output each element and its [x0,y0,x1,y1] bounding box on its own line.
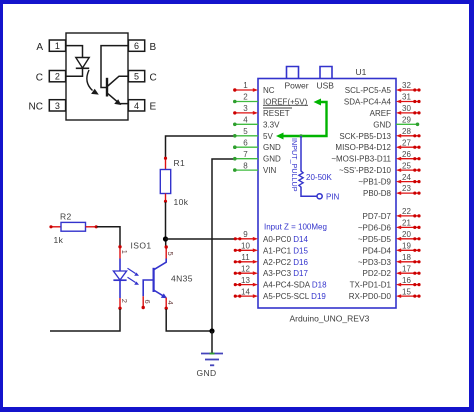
svg-text:A0-PC0 D14: A0-PC0 D14 [263,235,308,244]
label R2 [60,212,72,222]
ground node junction [209,328,214,333]
U1 pin name A1-PC1 D15 [263,246,308,255]
svg-text:1k: 1k [54,235,64,245]
svg-text:~PB1-D9: ~PB1-D9 [358,178,391,187]
svg-text:4: 4 [134,101,139,111]
svg-text:A: A [36,42,43,53]
U1 pin 20 stub [396,230,421,241]
U1 pin name ~PB1-D9 [358,178,391,187]
svg-text:2: 2 [120,299,129,303]
svg-text:E: E [150,102,157,113]
package pin 2 box [49,71,65,82]
svg-text:10k: 10k [174,197,189,207]
svg-text:10: 10 [241,242,250,251]
svg-text:R1: R1 [174,158,186,168]
U1 pin 5 stub [233,127,258,138]
U1 pin 26 stub [396,150,421,161]
package internal LED diode [76,58,89,69]
svg-text:ISO1: ISO1 [131,241,152,251]
svg-text:AREF: AREF [370,109,391,118]
package label B [150,42,157,53]
svg-text:8: 8 [243,161,248,170]
pullup resistor 20-50K [299,136,322,199]
ISO1 pin 1 [118,245,129,258]
svg-text:6: 6 [143,300,152,304]
svg-text:PD7-D7: PD7-D7 [363,212,392,221]
U1 pin name A4-PC4-SDA D18 [263,281,327,290]
optocoupler package body [66,33,128,120]
svg-text:26: 26 [402,150,411,159]
svg-text:20-50K: 20-50K [306,173,332,182]
U1 pin name ~SS&#39;-PB2-D10 [339,166,392,175]
svg-text:TX-PD1-D1: TX-PD1-D1 [350,281,392,290]
svg-text:3.3V: 3.3V [263,120,280,129]
wire node A to pin9 [166,238,237,240]
U1 pin name A0-PC0 D14 [263,235,308,244]
wire emitter to ground node [166,309,212,331]
label 1k [54,235,64,245]
U1 pin name GND [263,143,281,152]
U1 pin name ~MOSI-PB3-D11 [331,155,391,164]
svg-text:SDA-PC4-A4: SDA-PC4-A4 [344,98,392,107]
svg-text:20: 20 [402,230,411,239]
svg-text:A5-PC5-SCL D19: A5-PC5-SCL D19 [263,292,326,301]
svg-text:25: 25 [402,161,411,170]
label 20-50K [306,173,332,182]
U1 pin 4 stub [233,116,258,127]
U1 pin name 3.3V [263,120,280,129]
U1 pin 24 stub [396,173,421,184]
svg-text:Power: Power [285,81,309,91]
label Power [285,81,309,91]
U1 pin 8 stub [233,161,258,172]
svg-text:~PD6-D6: ~PD6-D6 [358,223,392,232]
svg-text:SCL-PC5-A5: SCL-PC5-A5 [345,86,392,95]
U1 pin 22 stub [396,207,421,218]
svg-text:MISO-PB4-D12: MISO-PB4-D12 [335,143,391,152]
ISO1 pin 5 [165,245,176,258]
U1 pin name SCK-PB5-D13 [339,132,391,141]
U1 pin 15 stub [396,287,421,298]
op-amp U1 chip body [258,79,396,309]
package label E [150,102,157,113]
svg-text:4: 4 [166,301,175,305]
svg-text:PD4-D4: PD4-D4 [363,246,392,255]
svg-text:1: 1 [243,81,248,90]
U1 pin name PB0-D8 [363,189,392,198]
svg-text:16: 16 [402,276,411,285]
U1 pin name SDA-PC4-A4 [344,98,392,107]
svg-text:32: 32 [402,81,411,90]
label 10k [174,197,189,207]
svg-text:5V: 5V [263,132,273,141]
svg-text:24: 24 [402,173,411,182]
U1 pin name NC [263,86,275,95]
ground [201,331,223,365]
U1 pin 17 stub [396,264,421,275]
package pin 6 box [128,40,144,51]
svg-text:1: 1 [120,250,129,254]
svg-text:NC: NC [29,102,43,113]
U1 pin name PD4-D4 [363,246,392,255]
U1 pin 6 stub [233,138,258,149]
U1 pin 3 stub [233,104,258,115]
svg-text:12: 12 [241,264,250,273]
svg-text:GND: GND [263,155,281,164]
U1 pin 14 stub [234,287,258,298]
svg-text:B: B [150,42,157,53]
U1 pin 16 stub [396,276,421,287]
U1 pin name ~PD5-D5 [358,235,392,244]
wire GND pin7 down [212,159,234,331]
svg-text:6: 6 [134,41,139,51]
svg-text:2: 2 [243,93,248,102]
svg-text:~PD3-D3: ~PD3-D3 [358,258,392,267]
U1 pin 7 stub [233,150,258,161]
package pin 4 box [128,100,144,111]
U1 pin name SCL-PC5-A5 [345,86,392,95]
U1 pin name A3-PC3 D17 [263,269,308,278]
package pin 5 box [128,71,144,82]
ISO1 pin 6 [142,296,153,309]
svg-text:A2-PC2 D16: A2-PC2 D16 [263,258,308,267]
U1 pin name A2-PC2 D16 [263,258,308,267]
svg-text:GND: GND [373,120,391,129]
U1 pin 18 stub [396,253,421,264]
svg-text:5: 5 [243,127,248,136]
U1 pin 10 stub [234,242,258,253]
svg-text:17: 17 [402,264,411,273]
node A junction [163,236,168,241]
svg-text:Arduino_UNO_REV3: Arduino_UNO_REV3 [290,314,370,324]
package light arrow [87,70,99,95]
svg-text:GND: GND [263,143,281,152]
label INPUT_PULLUP [290,138,299,192]
U1 pin 23 stub [396,184,421,195]
svg-text:5: 5 [166,252,175,256]
U1 pin name PD7-D7 [363,212,392,221]
U1 pin 25 stub [396,161,421,172]
svg-text:22: 22 [402,207,411,216]
svg-text:2: 2 [55,72,60,82]
U1 pin name A5-PC5-SCL D19 [263,292,326,301]
U1 pin name RESET [263,105,308,118]
svg-text:18: 18 [402,253,411,262]
U1 pin 27 stub [396,138,421,149]
svg-text:30: 30 [402,104,411,113]
U1 pin 19 stub [396,242,421,253]
svg-text:GND: GND [197,368,217,378]
U1 pin 21 stub [396,219,421,230]
label PIN [326,193,340,202]
wire R2 to ISO1 pin1 [97,227,120,246]
U1 pin name 5V [263,132,273,141]
label 4N35 [171,274,193,284]
svg-text:7: 7 [243,150,248,159]
svg-text:21: 21 [402,219,411,228]
svg-text:PIN: PIN [326,193,340,202]
svg-text:R2: R2 [60,212,72,222]
svg-text:A1-PC1 D15: A1-PC1 D15 [263,246,308,255]
svg-text:28: 28 [402,127,411,136]
svg-text:11: 11 [241,253,250,262]
svg-text:1: 1 [55,41,60,51]
wire LED cathode left [50,309,120,331]
package label NC [29,102,43,113]
svg-text:23: 23 [402,184,411,193]
U1 pin name PD2-D2 [363,269,392,278]
ISO1 pin 2 [118,298,129,310]
wire R1 to node A [165,202,167,239]
ISO1 pin 4 [165,298,176,310]
U1 pin 32 stub [396,81,421,92]
svg-text:5: 5 [134,72,139,82]
label Input Z = 100Meg [264,223,327,232]
U1 pin 2 stub [233,93,258,104]
ISO1 phototransistor [143,259,167,299]
U1 pin 9 stub [234,230,258,241]
svg-text:14: 14 [241,287,250,296]
wire 5V to R1 [166,136,234,158]
package transistor emitter [108,94,129,105]
svg-text:3: 3 [55,101,60,111]
U1 pin name VIN [263,166,277,175]
package pin 1 box [49,40,65,51]
svg-text:~PD5-D5: ~PD5-D5 [358,235,392,244]
label USB [317,81,335,91]
svg-text:~SS'-PB2-D10: ~SS'-PB2-D10 [339,166,392,175]
U1 pin name GND [373,120,391,129]
IOREF to 5V green arrow [276,99,327,140]
svg-text:9: 9 [243,230,248,239]
svg-text:31: 31 [402,93,411,102]
svg-text:NC: NC [263,86,275,95]
svg-text:A3-PC3 D17: A3-PC3 D17 [263,269,308,278]
label ISO1 [131,241,152,251]
label Arduino_UNO_REV3 [290,314,370,324]
package label C [150,72,157,83]
package label A [36,42,43,53]
package label C [36,72,43,83]
U1 pin 31 stub [396,93,421,104]
svg-text:A4-PC4-SDA D18: A4-PC4-SDA D18 [263,281,327,290]
U1 pin 28 stub [396,127,421,138]
ISO1 LED [113,259,126,299]
package transistor base bar [106,78,108,97]
ISO1 light arrows [128,268,140,285]
U1 pin name MISO-PB4-D12 [335,143,391,152]
U1 pin 29 stub [396,116,419,127]
wire node A to ISO1 pin 5 [165,239,167,247]
U1 usb connector tab [320,67,332,79]
resistor R1 [160,157,170,203]
svg-text:PB0-D8: PB0-D8 [363,189,392,198]
U1 pin name GND [263,155,281,164]
svg-text:VIN: VIN [263,166,277,175]
svg-text:RX-PD0-D0: RX-PD0-D0 [349,292,392,301]
U1 pin name ~PD6-D6 [358,223,392,232]
package internal LED wire pin2 [66,68,83,76]
U1 pin 13 stub [234,276,258,287]
svg-text:RESET: RESET [263,109,290,118]
svg-text:PD2-D2: PD2-D2 [363,269,392,278]
U1 pin name ~PD3-D3 [358,258,392,267]
svg-text:29: 29 [402,116,411,125]
svg-text:3: 3 [243,104,248,113]
svg-text:C: C [36,72,43,83]
U1 pin name IOREF(+5V) [263,98,308,107]
U1 pin 11 stub [234,253,258,264]
label R1 [174,158,186,168]
svg-text:C: C [150,72,157,83]
svg-text:19: 19 [402,242,411,251]
svg-text:~MOSI-PB3-D11: ~MOSI-PB3-D11 [331,155,391,164]
U1 pin name TX-PD1-D1 [350,281,392,290]
svg-text:6: 6 [243,138,248,147]
svg-text:USB: USB [317,81,335,91]
svg-text:4N35: 4N35 [171,274,193,284]
label U1 [356,67,367,77]
package internal LED wire pin1 [66,46,83,58]
U1 pin 12 stub [234,264,258,275]
svg-text:15: 15 [402,287,411,296]
svg-text:Input Z = 100Meg: Input Z = 100Meg [264,223,327,232]
svg-text:13: 13 [241,276,250,285]
U1 pin name AREF [370,109,391,118]
package transistor collector [108,76,129,86]
svg-text:INPUT_PULLUP: INPUT_PULLUP [290,138,299,192]
label GND [197,368,217,378]
resistor R2 [49,222,97,231]
svg-text:U1: U1 [356,67,367,77]
package pin 3 box [49,100,65,111]
U1 pin 1 stub [233,81,258,92]
svg-text:27: 27 [402,138,411,147]
U1 pin name RX-PD0-D0 [349,292,392,301]
svg-text:4: 4 [243,116,248,125]
U1 pin 30 stub [396,104,421,115]
svg-text:SCK-PB5-D13: SCK-PB5-D13 [339,132,391,141]
package transistor base wire pin6 [101,46,128,88]
U1 power connector tab [287,67,299,79]
